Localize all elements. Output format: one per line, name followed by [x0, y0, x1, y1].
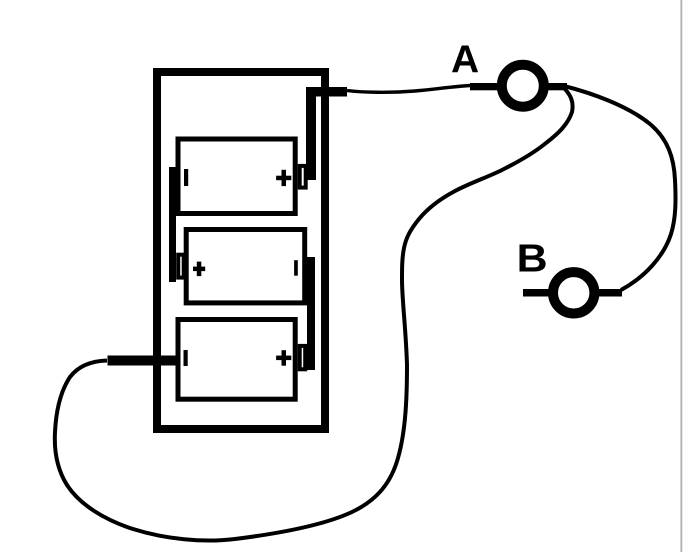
- cell 1 (top) body: [178, 139, 295, 214]
- wire: lamp A right terminal arcing right and down to lamp B right terminal: [564, 86, 676, 290]
- wire: battery positive terminal to lamp A left terminal: [347, 86, 471, 93]
- cell 3 positive mark: [276, 350, 291, 366]
- connector bar: cell 2 negative to cell 3 positive (right side): [307, 257, 315, 370]
- cell 2 positive mark: [193, 262, 205, 277]
- cell 1 positive terminal bump: [300, 166, 306, 188]
- cell 2 (middle) body: [186, 230, 305, 303]
- connector bar: cell 1 negative to cell 2 positive (left side): [169, 167, 176, 282]
- battery holder box: [157, 72, 325, 429]
- cell 3 negative mark: [184, 350, 188, 366]
- lamp B right lead stub: [596, 289, 622, 297]
- svg-text:B: B: [517, 236, 548, 280]
- cell 2 positive terminal bump: [178, 255, 184, 278]
- cell 1 negative mark: [184, 169, 188, 186]
- lamp A bulb circle: [502, 65, 544, 107]
- svg-text:A: A: [451, 38, 479, 81]
- lamp B left lead stub (open end): [523, 289, 555, 297]
- lamp B bulb circle: [553, 272, 594, 313]
- connector bar: holder stub down to cell 1 positive bump: [306, 87, 316, 180]
- page frame line (right edge): [680, 0, 682, 552]
- battery negative output stub (left of holder): [108, 356, 177, 366]
- cell 3 positive terminal bump: [300, 346, 306, 369]
- lamp A left lead stub: [470, 83, 503, 90]
- battery positive output stub (top right of holder): [306, 87, 347, 97]
- cell 3 (bottom) body: [178, 320, 295, 400]
- lamp A right lead stub: [540, 83, 567, 90]
- cell 2 negative mark: [294, 260, 298, 276]
- wire: battery negative terminal to bottom loop up to lamp A right terminal: [55, 87, 573, 541]
- cell 1 positive mark: [276, 170, 291, 186]
